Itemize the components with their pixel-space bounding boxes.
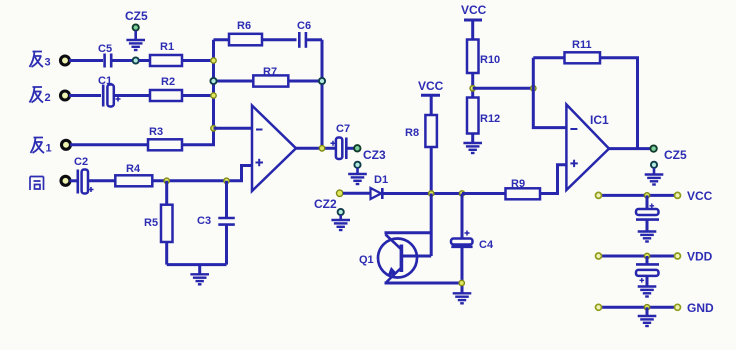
wire R3 to bus corner up to node	[182, 130, 214, 145]
ground below rail GND	[646, 307, 649, 315]
connector CZ2	[314, 190, 344, 219]
svg-text:R10: R10	[480, 54, 500, 66]
wire bottom of R5/C3	[167, 263, 227, 266]
ground below R12	[463, 143, 482, 153]
svg-text:R3: R3	[149, 126, 163, 138]
svg-text:VCC: VCC	[418, 79, 444, 93]
wire right feedback column	[321, 40, 324, 149]
power VCC for R10	[461, 3, 487, 40]
svg-text:R2: R2	[161, 76, 175, 88]
wire C1 to R2	[115, 94, 151, 97]
capacitor C2 polarized	[70, 156, 94, 194]
wire 反1 to R3	[70, 143, 148, 146]
wire R11 feedback row	[533, 58, 637, 149]
node 同 input label	[30, 177, 44, 191]
wire R4 to +input network	[152, 179, 243, 182]
connector CZ3	[354, 145, 386, 173]
svg-text:R11: R11	[572, 39, 592, 51]
svg-text:C7: C7	[336, 123, 350, 135]
resistor R6	[229, 20, 262, 45]
svg-text:C5: C5	[98, 43, 112, 55]
node J2	[211, 58, 216, 63]
svg-text:C3: C3	[197, 215, 211, 227]
wire D1 to node	[383, 192, 462, 195]
ground below CZ5 right	[645, 175, 664, 185]
svg-text:R12: R12	[480, 113, 500, 125]
wire left summing bus	[212, 40, 215, 145]
wire CZ2 to D1	[343, 192, 371, 195]
resistor R8	[405, 115, 437, 194]
terminal 反3	[61, 56, 70, 65]
wire 反2 to C1	[69, 94, 101, 97]
node Q1 emitter/C4 bottom	[459, 280, 464, 285]
terminal 反1	[62, 140, 71, 149]
node J6	[224, 178, 229, 183]
svg-text:R6: R6	[237, 20, 251, 32]
wire node to R1	[139, 59, 150, 62]
svg-text:2: 2	[45, 92, 51, 104]
ground below rail VCC cap	[638, 232, 657, 242]
wire R9 step to +input IC1	[540, 165, 566, 194]
resistor R11	[565, 39, 601, 63]
transistor Q1	[359, 194, 462, 284]
svg-text:3: 3	[45, 57, 51, 69]
terminal 反2	[61, 91, 70, 100]
wire R1 to bus	[182, 59, 214, 62]
capacitor C6	[297, 20, 322, 48]
svg-text:C4: C4	[479, 239, 494, 251]
node J5	[164, 178, 169, 183]
svg-text:CZ5: CZ5	[125, 9, 148, 23]
svg-text:CZ3: CZ3	[363, 148, 386, 162]
svg-text:IC1: IC1	[590, 113, 609, 127]
ground below CZ3	[348, 174, 367, 184]
wire to -input of op-amp U1	[214, 127, 253, 130]
wire IC1 output	[609, 147, 650, 150]
capacitor rail VDD polarized reversed	[636, 256, 659, 286]
rail VCC	[596, 189, 713, 203]
wire C5 to node	[113, 59, 134, 62]
svg-text:R1: R1	[160, 41, 174, 53]
op-amp IC1	[566, 105, 609, 191]
svg-text:CZ2: CZ2	[314, 197, 337, 211]
ground below R5/C3	[198, 265, 201, 274]
node 反1 input label	[31, 138, 52, 155]
wire R7 row	[214, 80, 323, 83]
wire J11 to IC1 -input column	[473, 87, 534, 90]
svg-text:R5: R5	[144, 217, 158, 229]
diode D1	[371, 174, 389, 199]
svg-text:1: 1	[46, 143, 52, 155]
capacitor C7 polarized	[331, 123, 355, 159]
resistor R12	[467, 98, 500, 143]
svg-text:R8: R8	[405, 127, 419, 139]
connector CZ5 top-left	[125, 9, 148, 40]
ground below C4	[453, 293, 472, 303]
node J13 C4 top	[459, 191, 464, 196]
node J10	[429, 191, 434, 196]
node J3	[211, 93, 216, 98]
svg-text:D1: D1	[374, 174, 388, 186]
svg-text:GND: GND	[687, 301, 714, 315]
wire 反3 to C5	[69, 59, 103, 62]
rail VDD	[596, 250, 713, 264]
svg-text:C6: C6	[297, 20, 311, 32]
resistor R5	[144, 181, 173, 265]
rail GND	[596, 301, 715, 315]
wire top feedback row	[214, 38, 297, 41]
svg-text:VCC: VCC	[461, 3, 487, 17]
node 反3 input label	[30, 52, 51, 69]
power VCC for R8	[418, 79, 444, 115]
node J8 teal	[319, 78, 325, 84]
wire node to R9	[462, 192, 506, 195]
node J9 teal	[210, 78, 216, 84]
node J1 teal C5/R1	[133, 57, 139, 63]
node J11	[470, 86, 475, 91]
resistor R9	[506, 178, 541, 199]
ground CZ5 top-left	[126, 40, 145, 50]
capacitor C3	[197, 181, 235, 265]
svg-text:CZ5: CZ5	[664, 148, 687, 162]
resistor R4	[115, 163, 152, 186]
node J7 output	[319, 146, 324, 151]
svg-text:VCC: VCC	[687, 189, 713, 203]
connector CZ5 right	[650, 145, 687, 174]
node J4	[211, 126, 216, 131]
svg-text:C2: C2	[74, 156, 88, 168]
wire R2 to bus	[182, 94, 214, 97]
svg-text:R4: R4	[126, 163, 141, 175]
resistor R3	[148, 126, 182, 150]
op-amp U1	[252, 106, 296, 192]
capacitor rail VCC polarized	[636, 195, 659, 231]
terminal 同	[61, 176, 70, 185]
wire step to +input of op-amp U1	[242, 166, 253, 181]
ground below CZ2	[331, 220, 350, 230]
resistor R2	[150, 76, 182, 101]
resistor R1	[150, 41, 182, 66]
svg-text:Q1: Q1	[359, 254, 374, 266]
wire -input column	[533, 58, 566, 128]
wire U1 output	[296, 147, 337, 150]
capacitor C1 polarized	[98, 75, 121, 107]
resistor R7	[253, 66, 288, 87]
svg-text:VDD: VDD	[687, 250, 713, 264]
resistor R10	[467, 40, 500, 98]
wire C2 to R4	[89, 179, 116, 182]
capacitor C5	[98, 43, 112, 68]
capacitor C4 polarized	[451, 194, 494, 293]
node 反2 input label	[30, 87, 51, 104]
ground below rail VDD cap	[638, 287, 657, 297]
node J12	[531, 86, 536, 91]
